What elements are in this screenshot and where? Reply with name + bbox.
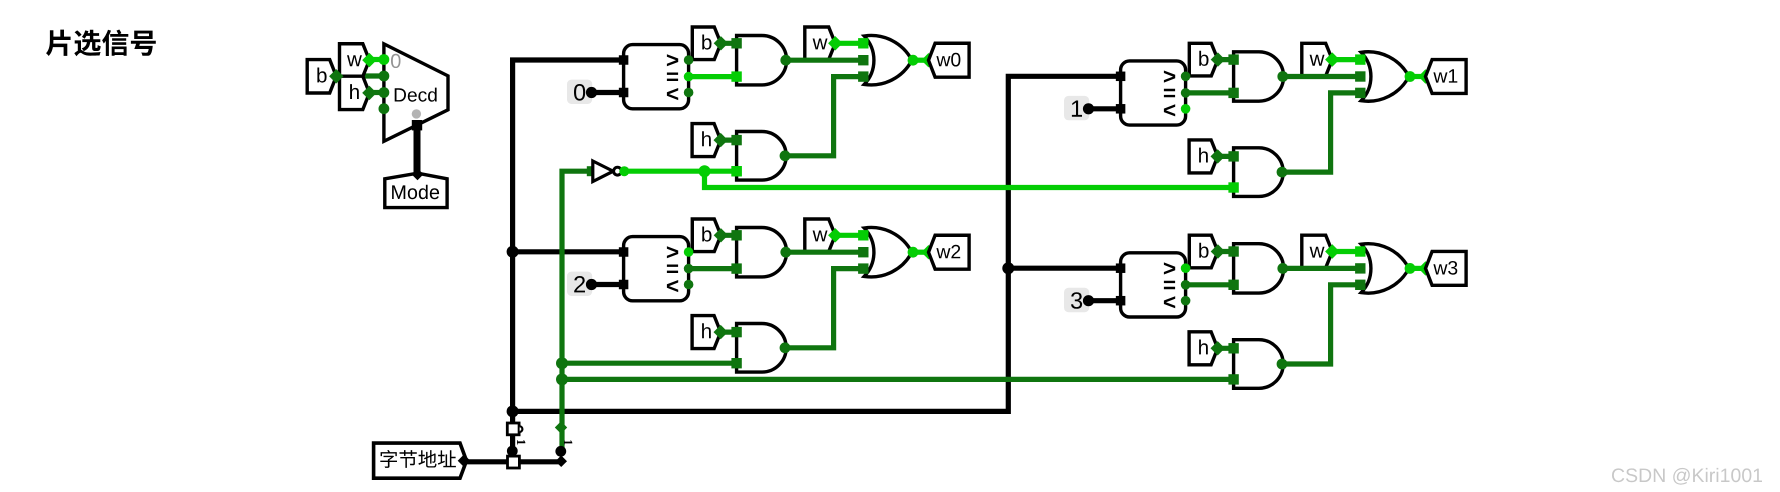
tunnel w block w1 label (1310, 55, 1325, 66)
wire w tunnel to OR gate (1332, 249, 1360, 254)
anchor diamond b tunnel w1 (1211, 52, 1225, 66)
tunnel byte-address body (374, 443, 467, 478)
A1 output dot (1277, 71, 1288, 82)
wire h tunnel to AND gate (1218, 346, 1234, 351)
tunnel b (top left) (307, 60, 336, 93)
tunnel w block w3 label (1310, 247, 1325, 258)
wire: bus segment between splitters (510, 433, 515, 457)
OR gate O1 block w1 (1361, 52, 1409, 101)
wire b tunnel to AND gate (1218, 57, 1234, 62)
constant output dot (586, 279, 597, 290)
comparator U3 symbol > (1164, 71, 1175, 83)
wire b tunnel to AND gate (1218, 249, 1234, 254)
A2 output dot (1277, 167, 1288, 178)
decoder enable pin (unconnected) (412, 109, 421, 118)
comparator U4 body (1121, 253, 1186, 317)
wire: byte-address tunnel to splitter (465, 459, 561, 464)
junction on bus to U2 (507, 246, 519, 258)
wire A2 output up to OR gate (1283, 93, 1360, 172)
anchor diamond h tunnel w0 (714, 133, 728, 147)
O1 input and1 (858, 247, 868, 257)
junction on right bus to U4 (1002, 262, 1014, 274)
comparator U1 input B (619, 88, 629, 98)
comparator U3 output < (1181, 104, 1191, 114)
O1 input and2 (1355, 88, 1365, 98)
anchor diamond w tunnel w1 (1325, 52, 1339, 66)
comparator U4 symbol = (1164, 281, 1175, 290)
comparator U1 symbol < (667, 88, 678, 100)
tunnel w block w1 (1302, 43, 1333, 76)
decoder output index 0 (391, 54, 401, 68)
comparator U1 input A (619, 55, 629, 65)
decoder U0 body (384, 44, 448, 141)
tunnel w block w2 (805, 219, 836, 252)
tunnel w2 output label (936, 245, 960, 258)
comparator U3 input B (1116, 104, 1126, 114)
A1 input b (731, 230, 741, 240)
comparator U2 body (624, 237, 689, 301)
comparator U2 symbol > (667, 246, 678, 258)
junction bit line to w3 AND (556, 373, 568, 385)
wire b tunnel to AND gate (721, 41, 737, 46)
comparator U3 input A (1116, 72, 1126, 82)
anchor diamond w tunnel w2 (828, 228, 842, 242)
comparator U1 output < (684, 88, 694, 98)
A2 output dot (780, 150, 791, 161)
comparator U3 output > (1181, 72, 1191, 82)
A1 output dot (1277, 263, 1288, 274)
tunnel w0 output label (936, 53, 960, 67)
wire O1 output to w3 tunnel (1410, 266, 1426, 271)
splitter S1 bit label 1 (517, 440, 525, 445)
decoder pin 3 (379, 87, 390, 98)
O1 output dot (908, 247, 919, 258)
wire: decoder select to Mode tunnel (414, 126, 421, 172)
A1 input eq (1228, 280, 1238, 290)
anchor diamond w tunnel w0 (828, 36, 842, 50)
OR gate O1 block w3 (1361, 244, 1409, 293)
A1 output dot (780, 55, 791, 66)
wire O1 output to w0 tunnel (913, 58, 929, 63)
tunnel b block w0 label (702, 35, 711, 50)
comparator U2 symbol = (667, 265, 678, 274)
tunnel h block w2 (692, 316, 721, 349)
A1 input eq (1228, 88, 1238, 98)
comparator U3 body (1121, 61, 1186, 125)
decoder pin 2 (379, 71, 390, 82)
tunnel w block w0 label (813, 39, 828, 50)
tunnel h block w3 (1189, 332, 1218, 365)
constant 0 for block w0 (567, 80, 592, 104)
wire h tunnel to AND gate (721, 330, 737, 335)
AND gate A2 block w0 (737, 132, 787, 181)
anchor diamond w2 tunnel (921, 245, 935, 259)
tunnel b block w1 label (1199, 51, 1208, 66)
junction bit line to w2 AND (556, 357, 568, 369)
O1 input and1 (1355, 71, 1365, 81)
comparator U1 symbol > (667, 54, 678, 66)
comparator U2 symbol < (667, 280, 678, 292)
anchor diamond b tunnel w0 (714, 36, 728, 50)
wire h tunnel to AND gate (1218, 154, 1234, 159)
comparator U1 symbol = (667, 73, 678, 82)
tunnel w1 output label (1433, 69, 1457, 82)
junction NOT output branch (699, 165, 711, 177)
wire U2 equals output to AND gate (689, 266, 737, 271)
comparator U1 output = (684, 72, 694, 82)
A1 input eq (731, 71, 741, 81)
anchor diamond tunnel b (329, 69, 343, 83)
wire A2 output up to OR gate (786, 269, 863, 348)
OR gate O1 block w2 (864, 227, 912, 276)
splitter leg end diamond (555, 455, 567, 467)
wire U1 equals output to AND gate (689, 74, 737, 79)
tunnel b (top left) label (317, 68, 326, 83)
splitter S1 bump (520, 426, 523, 432)
comparator U4 symbol < (1164, 296, 1175, 308)
decoder pin 1 (379, 54, 390, 65)
AND gate A1 block w1 (1234, 52, 1284, 101)
comparator U1 output > (684, 55, 694, 65)
tunnel w1 output (1426, 60, 1467, 94)
wire: bit line to AND gate of w2 block (562, 361, 737, 366)
tunnel h block w1 (1189, 140, 1218, 173)
comparator U4 output < (1181, 296, 1191, 306)
anchor diamond b tunnel w3 (1211, 244, 1225, 258)
NOT gate G1 body (593, 161, 613, 182)
tunnel b block w2 label (702, 227, 711, 242)
O1 input w (858, 230, 868, 240)
O1 input w (1355, 54, 1365, 64)
tunnel b block w1 (1189, 43, 1218, 76)
comparator U1 body (624, 45, 689, 109)
AND gate A1 block w2 (737, 228, 787, 277)
wire constant to comparator U3 (1089, 106, 1121, 111)
A1 input b (1228, 246, 1238, 256)
wire constant to comparator U1 (592, 90, 624, 95)
A2 input bit w0 (over wire) (731, 166, 741, 176)
comparator U2 output > (684, 247, 694, 257)
O1 input and1 (858, 55, 868, 65)
constant 2 for block w2 (567, 272, 592, 296)
comparator U4 input B (1116, 296, 1126, 306)
anchor diamond h tunnel w3 (1211, 341, 1225, 355)
splitter S1 body (507, 423, 519, 435)
A1 input eq (731, 263, 741, 273)
tunnel b block w2 (692, 219, 721, 252)
O1 input and2 (858, 71, 868, 81)
comparator U4 symbol > (1164, 262, 1175, 274)
NOT gate G1 output dot (619, 166, 629, 176)
splitter S2 body (508, 456, 520, 468)
comparator U4 input A (1116, 263, 1126, 273)
splitter leg bit label 1 (564, 440, 572, 445)
A2 input h (731, 135, 741, 145)
decoder label Decd (395, 88, 437, 102)
wire A2 output up to OR gate (786, 77, 863, 156)
constant 3 text (1071, 292, 1082, 309)
tunnel h block w1 label (1199, 148, 1208, 163)
tunnel w3 output label (1433, 261, 1457, 275)
anchor diamond h tunnel w2 (714, 325, 728, 339)
wire O1 output to w2 tunnel (913, 250, 929, 255)
NOT gate G1 input stub (587, 166, 597, 176)
wire w tunnel to OR gate (835, 233, 863, 238)
anchor diamond w3 tunnel (1418, 261, 1432, 275)
tunnel w3 output (1426, 251, 1467, 285)
tunnel b block w3 label (1199, 243, 1208, 258)
A2 input h (731, 327, 741, 337)
AND gate A1 block w0 (737, 36, 787, 85)
AND gate A2 block w3 (1234, 340, 1284, 389)
wire A2 output up to OR gate (1283, 285, 1360, 364)
tunnel h block w3 label (1199, 340, 1208, 355)
comparator U2 output = (684, 264, 694, 274)
wire h tunnel to AND gate (721, 138, 737, 143)
AND gate A2 block w1 (1234, 148, 1284, 197)
comparator U2 input B (619, 280, 629, 290)
A1 input b (1228, 54, 1238, 64)
title 片选信号 (46, 30, 156, 57)
anchor diamond h tunnel w1 (1211, 149, 1225, 163)
constant output dot (1083, 103, 1094, 114)
wire A1 output to OR gate (1284, 74, 1360, 79)
wire: address bit up to NOT gate input (562, 171, 592, 455)
wire w tunnel to OR gate (1332, 57, 1360, 62)
junction bus bottom corner (507, 405, 519, 417)
wire: address bus from splitter up to comparator U1 input (513, 60, 624, 424)
constant 2 text (574, 276, 585, 292)
anchor diamond b tunnel w2 (714, 228, 728, 242)
O1 input and1 (1355, 263, 1365, 273)
O1 input w (1355, 246, 1365, 256)
constant output dot (1083, 295, 1094, 306)
tunnel w block w2 label (813, 231, 828, 242)
constant output dot (586, 87, 597, 98)
NOT gate G1 bubble (614, 167, 622, 175)
splitter leg diamond (bit 1) (555, 421, 567, 433)
A2 input bit (731, 166, 741, 176)
wire A1 output to OR gate (1284, 266, 1360, 271)
tunnel w (top left) (340, 44, 370, 77)
constant 3 for block w3 (1064, 288, 1089, 312)
tunnel w block w0 (805, 27, 836, 60)
anchor diamond w tunnel w3 (1325, 244, 1339, 258)
wire b tunnel to AND gate (721, 233, 737, 238)
O1 output dot (908, 55, 919, 66)
comparator U4 output = (1181, 280, 1191, 290)
tunnel Mode label (392, 185, 439, 200)
tunnel byte-address label 字节地址 (380, 450, 456, 468)
decoder pin 4 (379, 103, 390, 114)
anchor diamond tunnel w (362, 53, 376, 67)
constant 0 text (574, 84, 585, 101)
comparator U2 input A (619, 247, 629, 257)
A2 input bit (1228, 374, 1238, 384)
constant 1 for block w1 (1064, 96, 1089, 120)
A2 input bit (1228, 182, 1238, 192)
AND gate A1 block w3 (1234, 244, 1284, 293)
wire: inverted bit line to AND gate of w1 block (705, 171, 1234, 187)
wire constant to comparator U4 (1089, 298, 1121, 303)
A1 input b (731, 38, 741, 48)
O1 input and2 (1355, 280, 1365, 290)
wire constant to comparator U2 (592, 282, 624, 287)
A2 input h (1228, 151, 1238, 161)
wire A1 output to OR gate (787, 58, 863, 63)
O1 output dot (1405, 263, 1416, 274)
decoder select pin (412, 120, 422, 130)
O1 input and2 (858, 263, 868, 273)
tunnel h block w0 (692, 124, 721, 157)
wire b to decoder pin (336, 73, 384, 78)
O1 input w (858, 38, 868, 48)
A2 output dot (780, 342, 791, 353)
watermark CSDN @Kiri1001 (1612, 468, 1762, 485)
A2 input h (1228, 343, 1238, 353)
tunnel h (top left) (340, 76, 370, 109)
comparator U4 output > (1181, 263, 1191, 273)
tunnel w2 output (929, 235, 970, 269)
comparator U3 output = (1181, 88, 1191, 98)
wire U3 equals output to AND gate (1186, 90, 1234, 95)
anchor diamond byte-address (458, 454, 471, 467)
wire: bottom bus right and up to comparator U3 input (513, 76, 1122, 411)
wire w tunnel to OR gate (835, 41, 863, 46)
wire h to decoder pin (369, 90, 384, 95)
wire: bit line to AND gate of w3 block (562, 377, 1234, 382)
constant 1 text (1072, 101, 1082, 117)
junction between splitters (507, 446, 518, 457)
A2 input bit (731, 358, 741, 368)
anchor diamond w0 tunnel (921, 53, 935, 67)
tunnel h block w0 label (702, 131, 711, 146)
OR gate O1 block w0 (864, 35, 912, 84)
anchor diamond Mode wire (412, 168, 424, 180)
comparator U3 symbol < (1164, 104, 1175, 116)
A2 output dot (1277, 359, 1288, 370)
tunnel w (top left) label (347, 55, 362, 66)
splitter leg end dot (555, 446, 566, 457)
tunnel w0 output (929, 43, 970, 77)
wire O1 output to w1 tunnel (1410, 74, 1426, 79)
tunnel Mode (385, 173, 447, 207)
wire: right bus branch to comparator U4 input (1008, 266, 1121, 271)
tunnel h (top left) label (350, 84, 359, 99)
A1 output dot (780, 247, 791, 258)
tunnel b block w0 (692, 27, 721, 60)
wire w to decoder pin (369, 57, 384, 62)
wire: bus branch to comparator U2 input (513, 249, 624, 254)
AND gate A2 block w2 (737, 324, 787, 373)
wire U4 equals output to AND gate (1186, 282, 1234, 287)
anchor diamond tunnel h (362, 86, 376, 100)
comparator U3 symbol = (1164, 89, 1175, 98)
tunnel w block w3 (1302, 235, 1333, 268)
O1 output dot (1405, 71, 1416, 82)
wire NOT output to AND gate of w0 (627, 169, 737, 174)
tunnel h block w2 label (702, 323, 711, 338)
comparator U2 output < (684, 280, 694, 290)
tunnel b block w3 (1189, 235, 1218, 268)
anchor diamond w1 tunnel (1418, 69, 1432, 83)
wire A1 output to OR gate (787, 250, 863, 255)
